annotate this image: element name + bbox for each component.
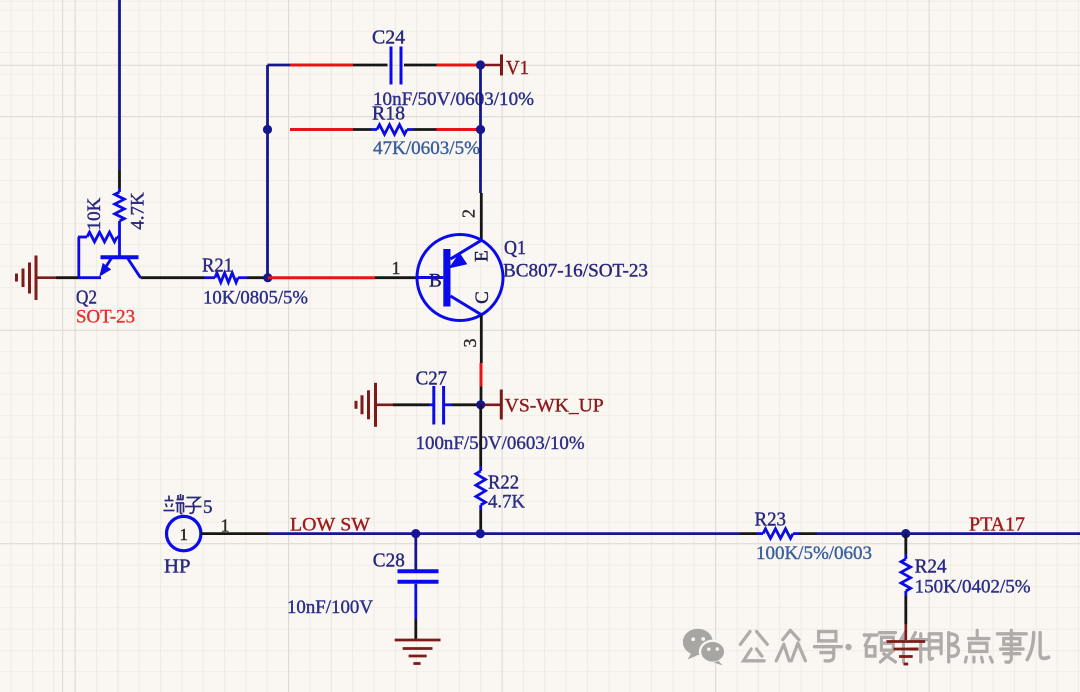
- svg-text:LOW SW: LOW SW: [290, 515, 370, 536]
- node (R21/R18 junction): [263, 273, 272, 282]
- svg-text:1: 1: [221, 516, 230, 536]
- svg-text:150K/0402/5%: 150K/0402/5%: [915, 577, 1031, 598]
- svg-text:C24: C24: [372, 28, 405, 49]
- svg-text:HP: HP: [164, 557, 191, 578]
- capacitor C28: [398, 534, 439, 639]
- wire (to C27 node): [480, 387, 483, 402]
- ground (C27): [356, 383, 393, 427]
- svg-text:C27: C27: [416, 369, 448, 390]
- resistor 4.7K (base series): [115, 170, 125, 256]
- wire (Q2 collector to R21): [141, 276, 205, 279]
- svg-text:5: 5: [203, 497, 213, 518]
- svg-text:B: B: [429, 271, 442, 292]
- svg-text:PTA17: PTA17: [969, 515, 1025, 536]
- svg-text:C28: C28: [373, 551, 405, 572]
- svg-text:R24: R24: [915, 557, 947, 578]
- watermark wechat icon: [683, 629, 725, 666]
- node (R22 junction): [476, 529, 485, 538]
- node (C27 junction): [476, 400, 485, 409]
- svg-text:1: 1: [180, 525, 188, 544]
- node (R18 left junction): [263, 125, 272, 134]
- wire (red segment right of C24): [437, 64, 479, 67]
- resistor 10K (base-emitter): [78, 232, 120, 242]
- wire (V1 down to R18 junction): [479, 65, 482, 130]
- svg-text:47K/0603/5%: 47K/0603/5%: [373, 138, 480, 159]
- svg-text:100K/5%/0603: 100K/5%/0603: [756, 543, 872, 564]
- connector terminal (HP): [167, 516, 201, 550]
- resistor R21: [204, 273, 247, 283]
- wire (red segment above C27 node): [480, 363, 483, 387]
- svg-text:4.7K: 4.7K: [488, 492, 525, 513]
- wire (C27 node down to R22): [479, 405, 482, 466]
- watermark text 公众号·硬件那点事儿: [740, 630, 1048, 662]
- capacitor C24: [353, 47, 437, 85]
- power port VS-WK_UP: [485, 390, 501, 420]
- svg-text:Q2: Q2: [76, 288, 97, 309]
- svg-text:V1: V1: [506, 58, 529, 79]
- wire (junction up to R18/C24 loop): [266, 65, 269, 278]
- svg-text:2: 2: [459, 209, 479, 218]
- wire (C28 junction to R22 junction): [416, 532, 476, 535]
- svg-text:R23: R23: [755, 510, 787, 531]
- wire (ground to Q2): [56, 276, 78, 279]
- svg-text:SOT-23: SOT-23: [76, 307, 135, 328]
- node (V1 junction): [476, 60, 485, 69]
- wire: [118, 0, 121, 170]
- resistor R18: [353, 125, 437, 135]
- svg-text:E: E: [472, 250, 493, 262]
- transistor Q2: [78, 237, 141, 278]
- resistor R22: [476, 466, 486, 530]
- svg-text:R18: R18: [372, 104, 405, 125]
- capacitor C27: [393, 386, 477, 425]
- power port V1: [485, 55, 502, 76]
- wire (red segment left of C24): [290, 64, 353, 67]
- wire (red segment left of R18): [290, 128, 353, 131]
- svg-text:C: C: [472, 291, 493, 304]
- svg-text:BC807-16/SOT-23: BC807-16/SOT-23: [503, 261, 648, 282]
- svg-text:1: 1: [392, 258, 401, 278]
- svg-text:R21: R21: [202, 256, 233, 277]
- wire (R23 to R24 junction): [817, 532, 902, 535]
- wire (red, junction to Q1 base): [268, 276, 375, 279]
- svg-text:10K/0805/5%: 10K/0805/5%: [203, 288, 308, 309]
- svg-text:4.7K: 4.7K: [128, 192, 149, 230]
- wire (C24 row, corner): [268, 64, 291, 67]
- ground (Q2 emitter): [17, 256, 57, 301]
- ground (C28): [395, 640, 441, 664]
- svg-text:Q1: Q1: [504, 238, 526, 259]
- wire (PTA17 net, to right edge): [906, 532, 1080, 535]
- wire (pin 1 of terminal): [201, 532, 269, 535]
- ground (R24): [887, 624, 926, 664]
- label 端子5: [164, 494, 213, 518]
- resistor R23: [740, 529, 817, 539]
- wire (pin 1 of Q1): [375, 276, 418, 279]
- node (R24 junction): [901, 529, 910, 538]
- wire (LOW_SW net): [269, 532, 412, 535]
- node (C28 junction): [411, 529, 420, 538]
- svg-text:10nF/100V: 10nF/100V: [287, 597, 373, 618]
- node (R18 right junction): [476, 125, 485, 134]
- svg-text:VS-WK_UP: VS-WK_UP: [505, 396, 604, 417]
- transistor Q1: [417, 235, 503, 321]
- wire (R21 to junction): [247, 276, 266, 279]
- resistor R24: [901, 534, 911, 624]
- svg-text:10K: 10K: [84, 197, 105, 230]
- svg-text:100nF/50V/0603/10%: 100nF/50V/0603/10%: [416, 433, 585, 454]
- wire (R22 junction to R23): [480, 532, 740, 535]
- wire (pin 3 of Q1): [480, 315, 483, 363]
- wire (red segment right of R18): [437, 128, 479, 131]
- svg-text:3: 3: [460, 339, 480, 348]
- wire (pin 2 of Q1): [480, 193, 483, 240]
- wire (R18 junction down): [479, 130, 482, 194]
- svg-text:R22: R22: [488, 473, 519, 494]
